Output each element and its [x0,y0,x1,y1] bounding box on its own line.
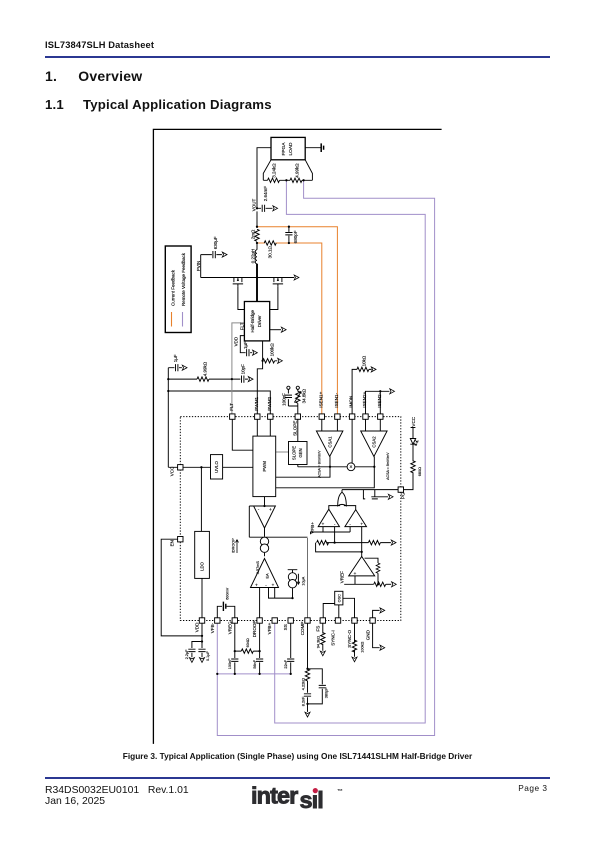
svg-text:100nF: 100nF [228,658,232,669]
svg-text:GEN: GEN [298,448,303,457]
svg-text:VCC: VCC [411,416,416,426]
svg-text:2mΩ: 2mΩ [250,229,255,239]
svg-text:CSA1: CSA1 [328,436,333,448]
svg-text:2.64mF: 2.64mF [263,186,268,202]
svg-text:1µF: 1µF [243,341,248,349]
svg-text:IMON: IMON [349,396,354,408]
svg-text:ACSA = 8mV/mV: ACSA = 8mV/mV [386,452,390,480]
svg-text:ISEN1+: ISEN1+ [318,391,323,407]
svg-text:Driver: Driver [257,315,262,328]
svg-text:PWM2: PWM2 [267,396,272,410]
svg-text:10kΩ: 10kΩ [361,355,366,366]
svg-text:PWM1: PWM1 [254,396,259,410]
svg-text:VDD: VDD [195,622,200,632]
svg-text:Current Feedback: Current Feedback [171,269,176,306]
svg-text:+: + [360,521,363,526]
svg-text:10µA: 10µA [301,576,305,585]
svg-text:600mV: 600mV [226,587,230,599]
svg-text:VCC: VCC [169,466,174,476]
svg-text:VFB+: VFB+ [267,622,272,634]
svg-text:UVLO: UVLO [214,460,219,472]
svg-text:ISEN2+: ISEN2+ [362,391,367,407]
svg-text:ISEN1-: ISEN1- [334,392,339,407]
svg-text:SYNC-O: SYNC-O [347,630,352,648]
svg-text:3.57mS: 3.57mS [256,561,260,575]
svg-text:×: × [349,465,352,471]
svg-text:PG: PG [401,492,406,499]
svg-text:0.22µH: 0.22µH [250,249,255,264]
svg-text:4.22kΩ: 4.22kΩ [302,678,306,690]
svg-text:COMP: COMP [300,622,305,636]
svg-text:Half-Bridge: Half-Bridge [250,309,255,332]
svg-text:4.99kΩ: 4.99kΩ [294,163,299,178]
svg-text:22nF: 22nF [284,659,288,668]
svg-text:DROOP: DROOP [252,620,257,637]
svg-text:+: + [322,521,325,526]
svg-text:EA: EA [265,573,270,579]
svg-text:ISEN2-: ISEN2- [377,392,382,407]
svg-text:2.2µF: 2.2µF [185,649,189,659]
svg-text:680pF: 680pF [293,230,298,243]
svg-text:VOUT: VOUT [252,199,257,212]
svg-text:SS: SS [283,624,288,630]
svg-text:8.2nF: 8.2nF [302,696,306,706]
svg-text:56nF: 56nF [253,659,257,668]
svg-text:4.99kΩ: 4.99kΩ [203,361,208,376]
svg-text:SLOPE: SLOPE [292,421,297,436]
svg-text:3.24kΩ: 3.24kΩ [271,163,276,178]
svg-text:CSA2: CSA2 [372,436,377,448]
svg-text:OSC: OSC [337,594,341,602]
svg-text:ACSA = 8mV/mV: ACSA = 8mV/mV [317,450,321,478]
svg-text:100pF: 100pF [282,393,287,406]
svg-text:100kΩ: 100kΩ [269,343,274,357]
svg-text:0.1µF: 0.1µF [206,651,210,661]
svg-text:EN: EN [169,540,174,546]
svg-text:PWM: PWM [262,461,267,472]
svg-text:IDROOP: IDROOP [231,538,235,553]
svg-text:LOAD: LOAD [288,142,294,156]
svg-text:30.1Ω: 30.1Ω [268,246,273,259]
svg-text:FLT: FLT [229,403,234,411]
svg-text:SYNC-I: SYNC-I [331,630,336,646]
svg-text:680Ω: 680Ω [418,467,422,476]
svg-text:100kΩ: 100kΩ [360,641,364,652]
svg-text:604Ω: 604Ω [246,638,250,647]
svg-text:VREG: VREG [227,621,232,634]
svg-text:FPGA: FPGA [281,142,287,156]
svg-text:FS: FS [315,626,320,632]
svg-text:VFB-: VFB- [210,622,215,633]
svg-text:380pF: 380pF [325,687,329,698]
svg-text:94.3kΩ: 94.3kΩ [316,636,320,648]
svg-text:10pF: 10pF [241,364,246,375]
svg-text:630µF: 630µF [213,236,218,249]
svg-text:34.8kΩ: 34.8kΩ [301,388,306,403]
svg-text:Remote Voltage Feedback: Remote Voltage Feedback [181,252,186,306]
svg-text:VREF: VREF [339,571,344,583]
svg-text:VDD: VDD [234,336,239,346]
svg-text:LDO: LDO [200,561,205,570]
svg-text:+: + [255,582,258,587]
svg-text:GND: GND [365,629,370,640]
svg-text:+: + [269,507,272,512]
svg-text:+: + [354,571,357,576]
svg-text:SLOPE: SLOPE [292,446,297,460]
svg-text:FLT: FLT [239,322,244,330]
svg-text:+: + [272,582,275,587]
svg-text:PVIN: PVIN [196,261,201,272]
svg-text:1µF: 1µF [173,354,178,362]
svg-text:VFB+: VFB+ [310,522,315,534]
